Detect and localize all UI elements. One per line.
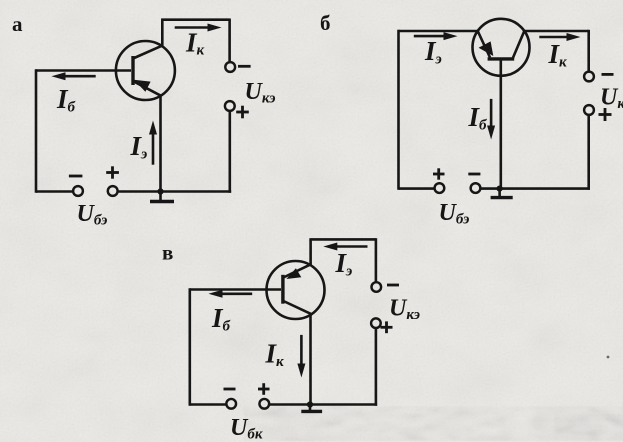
wire bottom left (36, 190, 73, 193)
wire top horizontal (309, 238, 376, 241)
ground (309, 405, 312, 412)
transistor VT2 circle (473, 19, 530, 76)
transistor VT1 base bar (131, 56, 134, 85)
wire right vertical bottom (375, 328, 378, 406)
transistor VT3 emitter stroke (283, 264, 310, 277)
terminal minus Ubе (73, 186, 83, 196)
label plus (599, 113, 612, 116)
label plus (258, 388, 270, 391)
wire right vertical bottom (587, 115, 590, 190)
wire bottom middle (269, 403, 377, 406)
label plus (106, 171, 119, 174)
transistor VT3 circle (267, 261, 325, 319)
junction collector node (307, 401, 313, 407)
wire left vertical (35, 69, 38, 192)
ground (159, 192, 162, 202)
wire top horizontal (161, 18, 230, 21)
terminal minus Ube (471, 183, 481, 193)
current arrow Iб (63, 75, 96, 78)
label minus (387, 284, 399, 287)
terminal minus Ubk (226, 399, 236, 409)
wire left vertical (397, 30, 400, 190)
wire bottom left (399, 187, 435, 190)
wire bottom left (190, 403, 227, 406)
terminal plus Uke (225, 101, 235, 111)
terminal plus Uke (584, 105, 594, 115)
current arrow Iк (300, 335, 303, 365)
terminal minus Uke (225, 62, 235, 72)
faint bleed-through band (278, 414, 623, 433)
transistor VT3 base bar (281, 275, 284, 304)
terminal plus Ube (108, 186, 118, 196)
wire right vertical top (375, 238, 378, 282)
wire base lead (190, 288, 281, 291)
wire base lead VT1 (36, 69, 131, 72)
label plus (381, 326, 393, 329)
current arrow Iб (490, 99, 493, 127)
label plus (236, 111, 249, 114)
terminal minus Uke (372, 282, 382, 292)
current arrow Iэ (335, 245, 368, 248)
transistor VT2 base bar (488, 57, 515, 60)
paper speck (607, 356, 610, 359)
transistor VT3 collector stroke (283, 301, 312, 315)
wire right vertical (229, 111, 232, 193)
transistor VT2 collector stroke (513, 31, 525, 59)
current arrow Iб (220, 292, 252, 295)
transistor VT2 emitter arrow (PNP) (479, 41, 494, 56)
wire base lead vertical (499, 59, 502, 189)
ground (498, 189, 501, 198)
svg-text:а: а (12, 12, 23, 36)
junction base node (497, 186, 503, 192)
wire right vertical top (587, 30, 590, 72)
current arrow Iэ (414, 35, 446, 38)
wire left vertical (189, 288, 192, 405)
transistor VT2 emitter stroke (478, 31, 490, 57)
terminal plus Ube (435, 183, 445, 193)
wire emitter vertical (309, 239, 312, 264)
label minus (238, 65, 251, 68)
wire top right (524, 30, 589, 33)
transistor VT1 collector stroke (133, 46, 162, 59)
transistor VT3 emitter arrow (PNP) (286, 268, 301, 279)
wire top left (399, 30, 478, 33)
terminal plus Uke (371, 318, 381, 328)
transistor VT1 emitter stroke (134, 81, 162, 96)
label minus (468, 173, 480, 176)
svg-text:в: в (162, 241, 173, 265)
current arrow Iк (539, 36, 568, 39)
junction emitter node (157, 188, 163, 194)
transistor VT1 circle (116, 41, 175, 100)
terminal plus Ubk (259, 399, 269, 409)
wire top right vertical (228, 19, 231, 63)
wire collector vertical (161, 20, 164, 46)
label minus (69, 175, 83, 178)
label plus (433, 173, 445, 176)
wire emitter vertical (159, 96, 162, 192)
current arrow Iк (175, 26, 209, 29)
transistor VT1 emitter arrow (PNP) (134, 80, 151, 92)
label minus (602, 73, 614, 76)
svg-text:б: б (320, 11, 331, 35)
wire bottom middle (480, 187, 590, 190)
terminal minus Uke (584, 72, 594, 82)
wire bottom middle (117, 190, 231, 193)
label minus (224, 388, 236, 391)
wire collector vertical (309, 315, 312, 405)
current arrow Iэ (152, 132, 155, 165)
